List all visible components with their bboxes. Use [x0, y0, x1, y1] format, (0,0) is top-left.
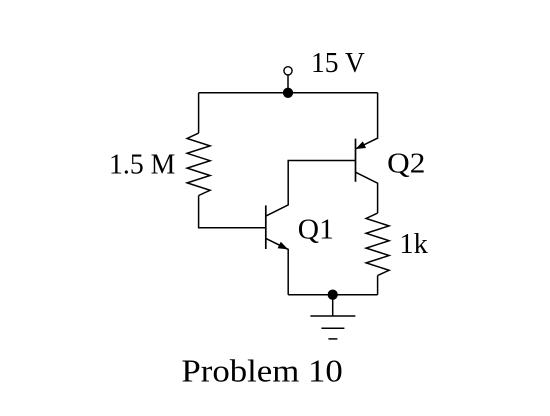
- svg-text:Q2: Q2: [387, 147, 425, 179]
- svg-text:Problem 10: Problem 10: [181, 352, 342, 388]
- svg-text:1.5 M: 1.5 M: [109, 148, 175, 180]
- svg-text:15 V: 15 V: [311, 47, 365, 79]
- svg-text:Q1: Q1: [298, 213, 334, 245]
- svg-text:1k: 1k: [399, 228, 428, 260]
